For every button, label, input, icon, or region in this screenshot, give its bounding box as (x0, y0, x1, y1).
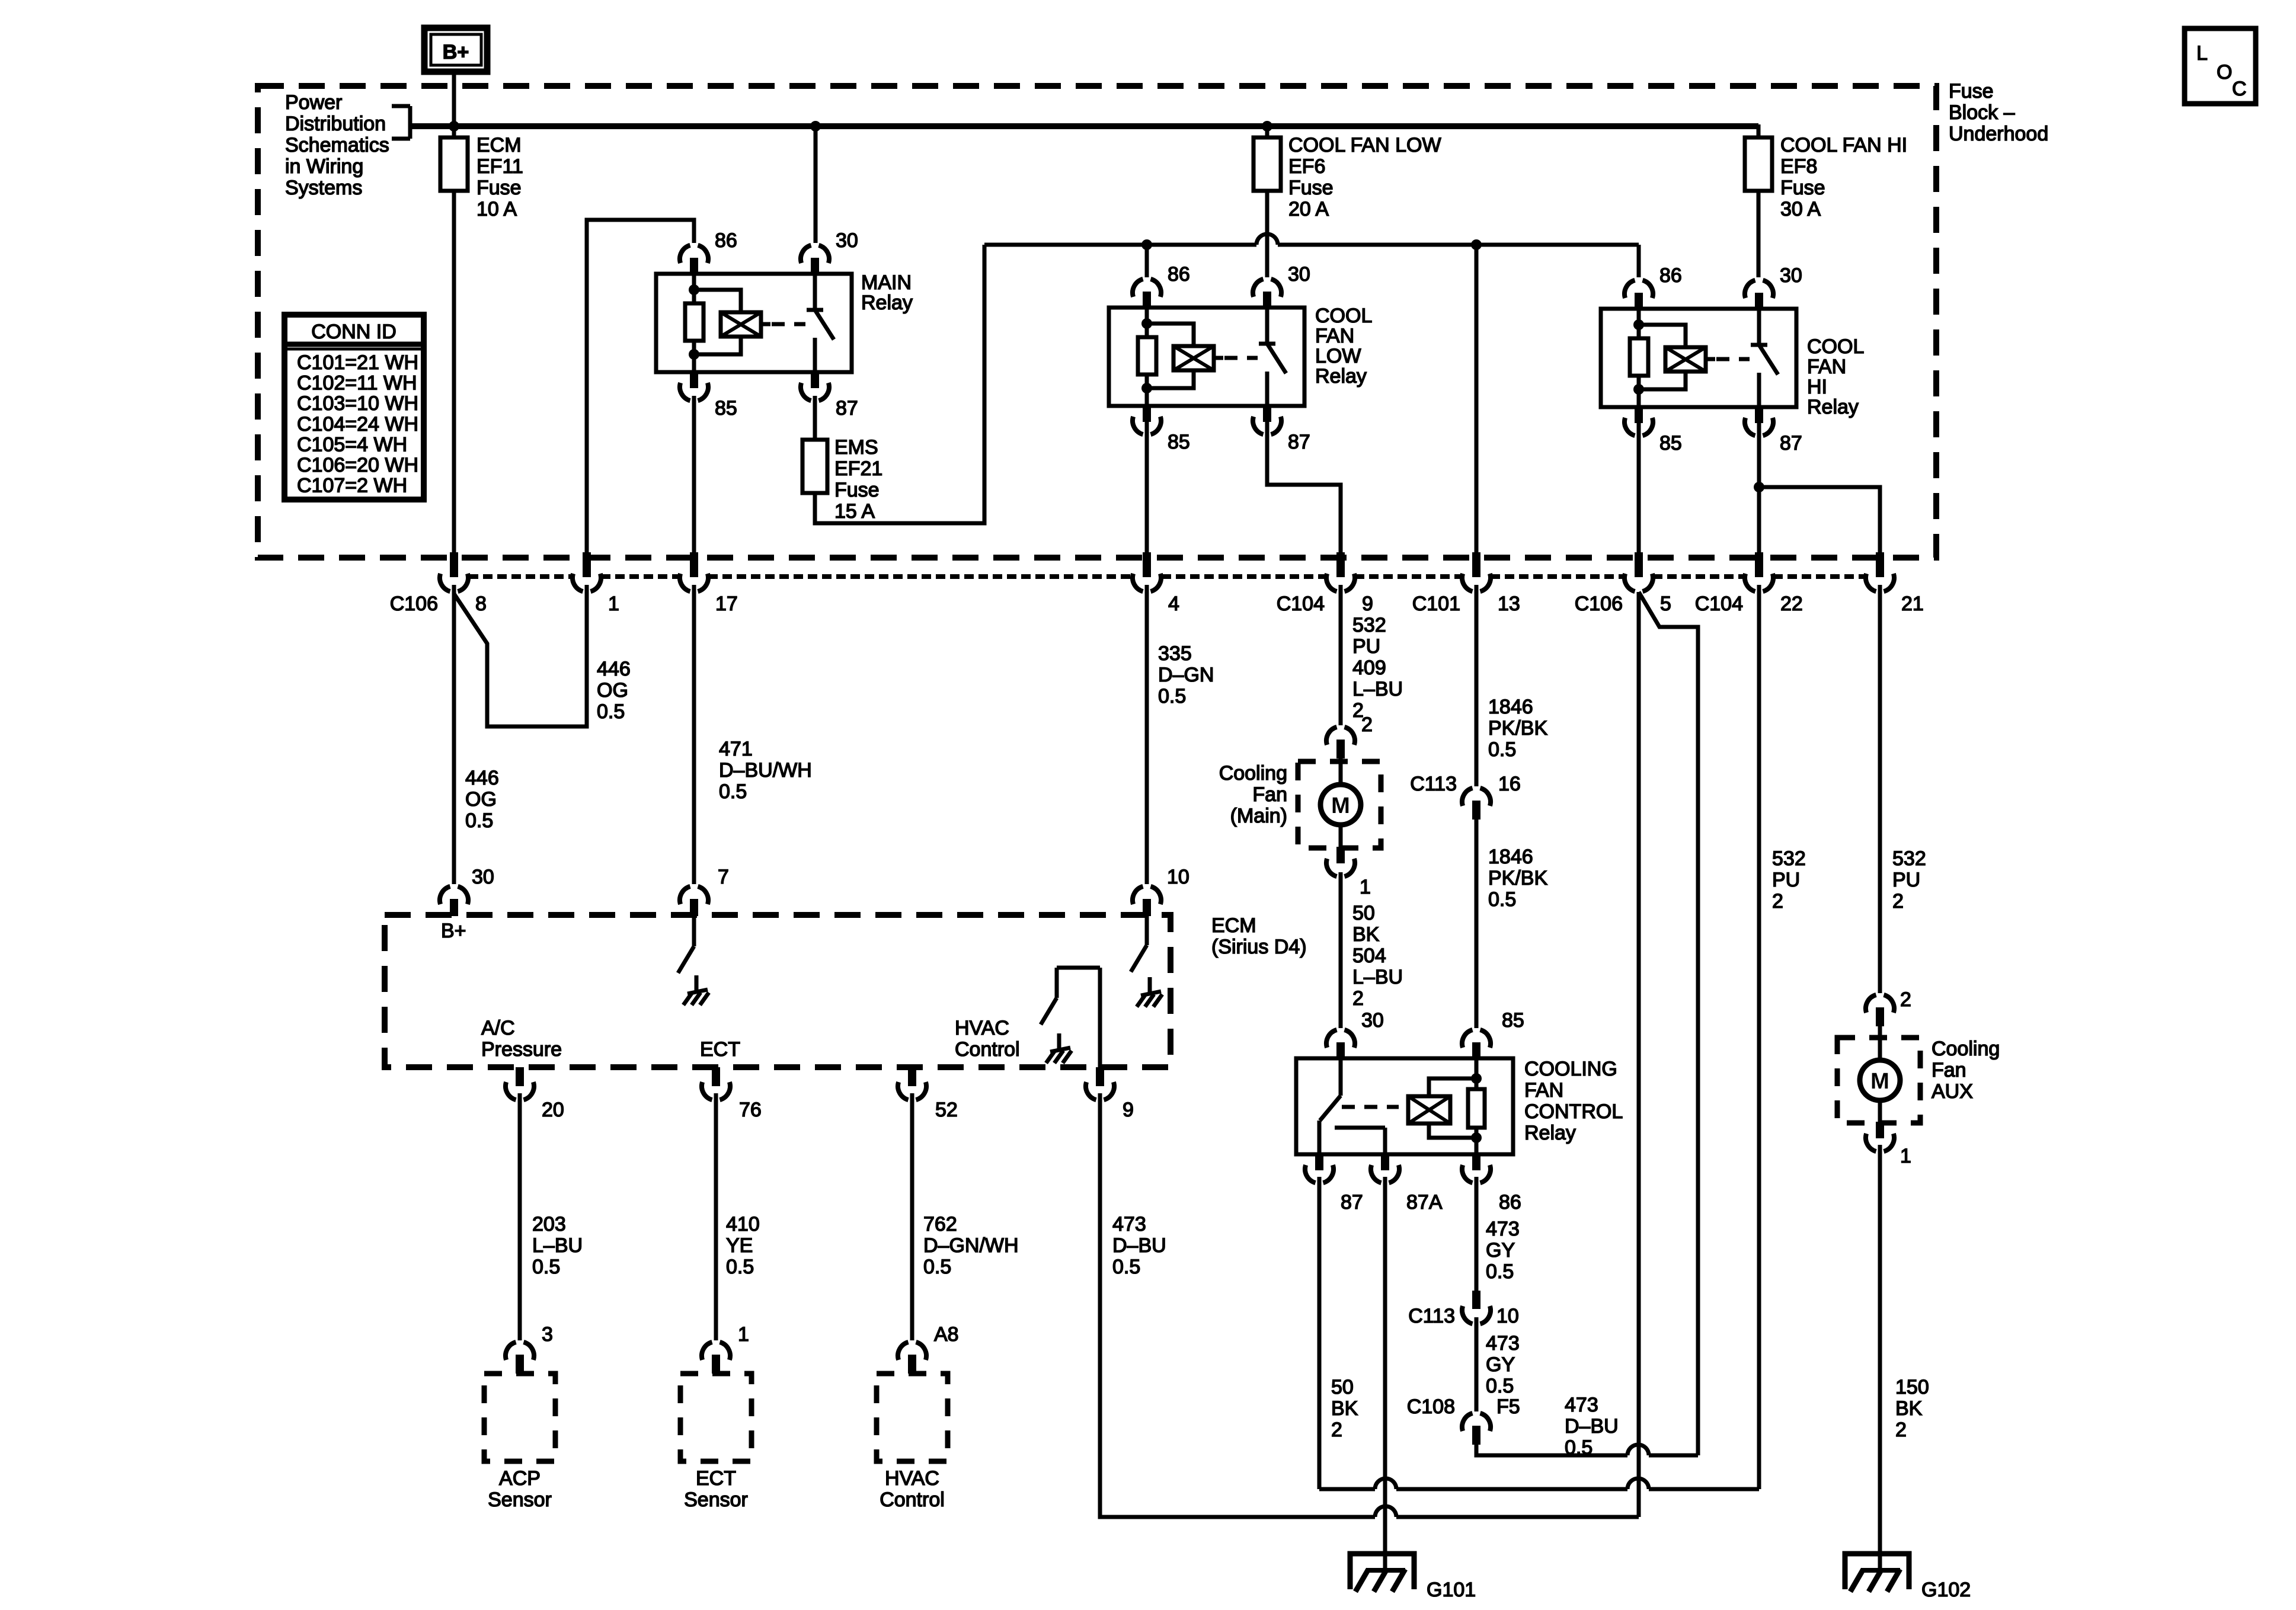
wire 410 YE to ECT sensor (714, 1093, 718, 1340)
svg-text:85: 85 (1168, 431, 1190, 453)
svg-text:C104: C104 (1695, 593, 1743, 615)
junction dot MAIN relay feed (810, 121, 821, 132)
control relay actuator dashed link (1342, 1105, 1399, 1109)
svg-text:4: 4 (1168, 593, 1179, 615)
svg-text:C101: C101 (1412, 593, 1460, 615)
fuse COOL FAN LOW EF6 20A (1265, 126, 1269, 137)
HVAC Control top connector pin A8 (898, 1342, 926, 1360)
svg-text:87: 87 (836, 397, 858, 420)
svg-text:EMS: EMS (834, 436, 878, 459)
svg-text:30: 30 (836, 229, 858, 252)
svg-text:M: M (1331, 793, 1350, 818)
svg-text:C101=21 WH: C101=21 WH (297, 351, 418, 374)
svg-text:Fuse: Fuse (1949, 80, 1994, 103)
svg-text:8: 8 (475, 593, 487, 615)
wire 50 BK relay 87 down (1318, 1177, 1322, 1489)
svg-text:COOL FAN HI: COOL FAN HI (1780, 134, 1907, 156)
svg-text:16: 16 (1498, 773, 1521, 795)
svg-text:CONN ID: CONN ID (311, 321, 396, 343)
fuse ECM EF11 10A (440, 137, 468, 191)
relay switch (813, 274, 817, 310)
svg-text:0.5: 0.5 (1486, 1375, 1514, 1397)
motor bottom connector (1336, 847, 1345, 863)
control relay switch (1339, 1058, 1343, 1096)
svg-text:C113: C113 (1408, 1305, 1455, 1327)
svg-text:O: O (2217, 61, 2232, 84)
svg-text:1846: 1846 (1488, 846, 1533, 868)
control relay coil (1408, 1096, 1450, 1124)
ground G101 (1350, 1554, 1414, 1589)
relay pin 87 connector (811, 371, 819, 388)
svg-text:13: 13 (1498, 593, 1520, 615)
svg-text:30 A: 30 A (1780, 198, 1821, 220)
relay actuator dashed link (1224, 356, 1258, 360)
svg-text:85: 85 (1502, 1009, 1524, 1032)
svg-text:(Main): (Main) (1230, 805, 1287, 827)
svg-text:446: 446 (597, 658, 631, 680)
svg-text:17: 17 (715, 593, 738, 615)
control relay junction dots (1471, 1073, 1482, 1084)
control relay bottom pin 87A (1381, 1153, 1389, 1170)
svg-text:AUX: AUX (1932, 1080, 1973, 1103)
ECT Sensor top connector pin 1 (702, 1342, 730, 1360)
svg-text:Fuse: Fuse (477, 177, 522, 199)
svg-text:86: 86 (1499, 1191, 1521, 1214)
ECT Sensor dashed box (680, 1374, 752, 1461)
junction dot CFL 86 (1141, 239, 1152, 250)
svg-text:OG: OG (597, 679, 628, 702)
svg-text:7: 7 (718, 866, 729, 888)
svg-text:22: 22 (1780, 593, 1803, 615)
svg-text:FAN: FAN (1524, 1079, 1563, 1102)
relay box MAIN (656, 274, 852, 372)
svg-text:YE: YE (726, 1234, 753, 1257)
svg-text:86: 86 (1659, 264, 1682, 287)
relay actuator dashed link (1716, 357, 1750, 361)
svg-text:C107=2 WH: C107=2 WH (297, 475, 407, 497)
svg-text:15 A: 15 A (834, 500, 875, 523)
svg-text:409: 409 (1352, 657, 1386, 679)
svg-text:10: 10 (1496, 1305, 1519, 1327)
svg-text:86: 86 (715, 229, 737, 252)
svg-text:GY: GY (1486, 1353, 1515, 1376)
svg-text:Systems: Systems (285, 177, 362, 199)
fuse COOL FAN HI EF8 30A (1745, 137, 1772, 191)
svg-text:PU: PU (1352, 635, 1380, 658)
relay pin 85 connector (690, 371, 698, 388)
relay box COOL (1601, 309, 1796, 407)
motor circle M (1860, 1060, 1900, 1100)
svg-text:D–BU/WH: D–BU/WH (719, 759, 812, 782)
svg-text:C104: C104 (1277, 593, 1325, 615)
svg-text:0.5: 0.5 (1565, 1436, 1593, 1459)
svg-text:Relay: Relay (1315, 365, 1367, 388)
wire 50 BK bottom bus to 532 PU wire (1319, 1487, 1375, 1491)
svg-text:G102: G102 (1921, 1579, 1971, 1601)
svg-text:21: 21 (1901, 593, 1924, 615)
motor top connector Cooling Fan AUX (1866, 995, 1894, 1013)
svg-text:0.5: 0.5 (1488, 738, 1516, 761)
hop on 473 D-BU over C106 5 wire (1627, 1445, 1649, 1455)
ECM pin 9 internal circuit (1057, 966, 1100, 970)
svg-text:L–BU: L–BU (1352, 678, 1403, 700)
wire 532 PU connector 22 down (1757, 585, 1761, 1489)
motor dashed box (1837, 1038, 1920, 1123)
relay box COOL (1109, 308, 1304, 406)
svg-text:OG: OG (465, 788, 497, 811)
ECM pin 20 connector A/C Pressure (516, 1067, 524, 1086)
relay pin 85 connector (1143, 405, 1151, 422)
wire B+ terminal down to EF11 fuse (452, 73, 456, 137)
connector C104 pin 9 (1336, 552, 1345, 577)
hop over EF6 wire (1256, 234, 1278, 245)
wire 50 BK 504 L-BU motor to relay 30 (1339, 872, 1343, 1028)
relay coil (694, 290, 741, 312)
wire CFL 85 to connector 4 (1145, 422, 1149, 554)
svg-text:C108: C108 (1407, 1395, 1455, 1418)
svg-text:L–BU: L–BU (1352, 966, 1403, 988)
connector C101 pin 13 (1472, 552, 1480, 577)
svg-text:A/C: A/C (481, 1017, 515, 1039)
svg-text:471: 471 (719, 738, 753, 760)
svg-text:COOL: COOL (1315, 305, 1372, 327)
motor bottom connector (1876, 1122, 1884, 1138)
svg-text:203: 203 (532, 1213, 566, 1235)
relay coil (1147, 324, 1194, 346)
svg-text:87: 87 (1780, 432, 1802, 454)
B+ power terminal box (424, 28, 487, 72)
svg-text:5: 5 (1660, 593, 1671, 615)
svg-text:B+: B+ (443, 41, 469, 63)
wire 335 D-GN connector 4 to ECM 10 (1145, 585, 1149, 884)
svg-text:504: 504 (1352, 945, 1386, 967)
svg-text:D–GN: D–GN (1158, 664, 1214, 686)
svg-text:0.5: 0.5 (923, 1256, 951, 1278)
motor top connector Cooling Fan Main (1326, 727, 1355, 745)
svg-text:1846: 1846 (1488, 696, 1533, 718)
svg-text:A8: A8 (934, 1323, 959, 1346)
wire EMS fuse to relay feed bus (815, 245, 984, 523)
wire MAIN 87 to EMS fuse (813, 396, 817, 440)
svg-text:C: C (2232, 78, 2247, 100)
relay pin 87 connector (1263, 405, 1271, 422)
svg-text:C103=10 WH: C103=10 WH (297, 392, 418, 415)
svg-text:BK: BK (1895, 1397, 1923, 1420)
svg-text:Pressure: Pressure (481, 1038, 562, 1061)
svg-text:446: 446 (465, 767, 499, 789)
hop on 473 D-BU over G101 wire (1375, 1506, 1396, 1517)
wire 473 GY C113 to C108 (1475, 1317, 1479, 1411)
connector C106 row pin 17 (690, 552, 698, 577)
svg-text:D–BU: D–BU (1112, 1234, 1166, 1257)
svg-text:Fuse: Fuse (1780, 177, 1825, 199)
svg-text:Schematics: Schematics (285, 134, 389, 156)
wire CFH 85 to connector 5 (1637, 422, 1641, 554)
svg-text:473: 473 (1112, 1213, 1146, 1235)
svg-text:473: 473 (1565, 1394, 1598, 1416)
hop over G101 wire (1375, 1478, 1396, 1489)
relay box COOLING FAN CONTROL (1296, 1058, 1513, 1154)
svg-text:ECT: ECT (696, 1467, 736, 1490)
wire 471 D-BU/WH connector 17 to ECM 7 (692, 585, 696, 884)
svg-text:30: 30 (472, 866, 494, 888)
svg-text:532: 532 (1892, 847, 1926, 870)
connector C106 row pin 1 (583, 552, 591, 577)
relay actuator dashed link (772, 322, 805, 327)
control relay bottom pin 87 (1315, 1153, 1323, 1170)
ECM pin 10 internal switch to ground (1145, 915, 1149, 945)
svg-text:PK/BK: PK/BK (1488, 867, 1547, 889)
relay junction dots (1633, 319, 1644, 330)
svg-text:B+: B+ (441, 920, 466, 942)
svg-text:M: M (1870, 1069, 1889, 1094)
svg-text:0.5: 0.5 (465, 809, 493, 832)
relay switch (1757, 309, 1761, 345)
svg-text:C105=4 WH: C105=4 WH (297, 433, 407, 456)
svg-text:9: 9 (1362, 593, 1373, 615)
svg-text:30: 30 (1780, 264, 1802, 287)
svg-text:COOL: COOL (1807, 335, 1864, 358)
motor circle M (1320, 785, 1361, 825)
wire 446 OG pin 8 to ECM B+ (452, 585, 456, 884)
ECM pin 10 connector (1133, 886, 1161, 904)
wire MAIN 85 to connector 17 (692, 396, 696, 554)
svg-text:Underhood: Underhood (1949, 123, 2048, 145)
svg-text:Cooling: Cooling (1932, 1038, 2000, 1060)
svg-text:87: 87 (1288, 431, 1310, 453)
HVAC Control dashed box (877, 1374, 948, 1461)
svg-text:ECM: ECM (1211, 914, 1256, 937)
svg-text:D–BU: D–BU (1565, 1415, 1619, 1438)
wire 203 L-BU to ACP sensor (518, 1093, 522, 1340)
ACP Sensor dashed box (484, 1374, 555, 1461)
relay pin 85 connector (1635, 406, 1643, 423)
svg-text:EF6: EF6 (1288, 155, 1325, 178)
svg-text:85: 85 (1659, 432, 1682, 454)
svg-text:10 A: 10 A (477, 198, 517, 220)
svg-text:9: 9 (1123, 1099, 1134, 1121)
ECM pin 7 internal switch to ground (692, 916, 696, 946)
svg-text:30: 30 (1288, 263, 1310, 286)
wire C101 13 drop to border (1475, 245, 1479, 554)
svg-text:410: 410 (726, 1213, 760, 1235)
ACP Sensor top connector pin 3 (506, 1342, 534, 1360)
wire C106 5 straight down (1637, 592, 1641, 1517)
svg-text:86: 86 (1168, 263, 1190, 286)
dotted inline connector line (469, 574, 573, 579)
junction dot CFH 87 branch (1754, 482, 1764, 492)
connector C104 pin 22 (1755, 552, 1763, 577)
svg-text:Fan: Fan (1252, 783, 1287, 806)
top bus wire from bracket to EF8 fuse (410, 123, 1758, 129)
wire CFL 87 jog to connector 9 (1267, 422, 1341, 554)
junction dot EF6 feed (1262, 121, 1272, 132)
inline connector C113 pin 16 (1462, 788, 1491, 806)
svg-text:150: 150 (1895, 1376, 1929, 1398)
svg-text:85: 85 (715, 397, 737, 420)
relay switch (1265, 308, 1269, 344)
wire branch to connector 21 (1759, 487, 1880, 554)
control relay pin 85 connector (1462, 1030, 1491, 1048)
svg-text:Relay: Relay (861, 292, 913, 314)
relay pin 87 connector (1755, 406, 1763, 423)
relay coil resistor (1637, 309, 1641, 338)
relay junction dots (1141, 318, 1152, 329)
svg-text:87: 87 (1341, 1191, 1363, 1214)
relay pin 30 connector (1253, 279, 1281, 297)
svg-text:2: 2 (1900, 988, 1911, 1011)
control relay bottom pin 86 (1472, 1153, 1480, 1170)
svg-text:Power: Power (285, 91, 342, 114)
svg-text:30: 30 (1361, 1009, 1384, 1032)
svg-text:FAN: FAN (1315, 325, 1354, 347)
svg-text:C113: C113 (1410, 773, 1457, 795)
svg-text:PU: PU (1772, 869, 1800, 891)
junction dot B+ drop (449, 121, 459, 132)
svg-text:HVAC: HVAC (955, 1017, 1009, 1039)
wire 446 OG jumper pin 1 to pin 8 (454, 585, 587, 726)
svg-text:HI: HI (1807, 376, 1827, 398)
wire MAIN relay pin 30 drop (814, 126, 818, 243)
ground G102 (1845, 1554, 1909, 1589)
svg-text:ECT: ECT (700, 1038, 740, 1061)
svg-text:EF21: EF21 (834, 457, 882, 480)
ECM Sirius D4 dashed box (385, 915, 1171, 1067)
svg-text:10: 10 (1167, 866, 1189, 888)
svg-text:762: 762 (923, 1213, 957, 1235)
svg-text:MAIN: MAIN (861, 271, 912, 294)
svg-text:0.5: 0.5 (1486, 1260, 1514, 1283)
control relay pin 30 connector (1326, 1030, 1355, 1048)
svg-text:0.5: 0.5 (532, 1256, 560, 1278)
ECM pin 76 connector ECT (712, 1067, 720, 1086)
svg-text:HVAC: HVAC (885, 1467, 939, 1490)
connector C106 pin 5 (1635, 552, 1643, 577)
svg-text:Fuse: Fuse (834, 479, 880, 501)
svg-text:1: 1 (1360, 876, 1371, 898)
svg-text:F5: F5 (1496, 1395, 1520, 1418)
wire 473 GY relay 86 to C113 10 (1475, 1177, 1479, 1292)
wire 473 D-BU C108 to C106 5 branch (1476, 1445, 1627, 1455)
svg-text:2: 2 (1352, 987, 1364, 1010)
svg-text:20 A: 20 A (1288, 198, 1329, 220)
connector C106 row pin 21 (1876, 552, 1884, 577)
relay feed bus wire (984, 243, 1256, 247)
svg-text:Control: Control (955, 1038, 1020, 1061)
svg-text:C106: C106 (390, 593, 438, 615)
svg-text:BK: BK (1352, 923, 1380, 946)
svg-text:G101: G101 (1427, 1579, 1476, 1601)
wire EF11 fuse to C106 pin 8 (452, 191, 456, 554)
wire MAIN relay pin 86 loop (587, 220, 694, 554)
svg-text:2: 2 (1895, 1419, 1907, 1441)
CONN ID table box (284, 315, 424, 500)
svg-text:Cooling: Cooling (1219, 762, 1287, 785)
svg-text:C104=24 WH: C104=24 WH (297, 413, 418, 436)
motor leads (1878, 1025, 1882, 1062)
svg-text:2: 2 (1772, 890, 1783, 913)
svg-text:52: 52 (935, 1099, 958, 1121)
control relay resistor (1475, 1058, 1479, 1089)
relay pin 30 connector (1745, 280, 1773, 298)
wire CFL relay 86 drop (1145, 245, 1149, 277)
ECM pin 7 connector (680, 886, 708, 904)
svg-text:76: 76 (739, 1099, 762, 1121)
svg-text:C102=11 WH: C102=11 WH (297, 372, 417, 395)
svg-text:C106=20 WH: C106=20 WH (297, 454, 418, 476)
svg-text:0.5: 0.5 (1488, 888, 1516, 911)
relay pin 30 connector (801, 245, 829, 263)
relay coil resistor (692, 274, 696, 303)
wire C106 5 branch diagonal (1639, 592, 1698, 1455)
fuse block underhood dashed border (258, 86, 1936, 558)
svg-text:D–GN/WH: D–GN/WH (923, 1234, 1019, 1257)
svg-text:ECM: ECM (477, 134, 522, 156)
relay coil resistor (1145, 308, 1149, 337)
svg-text:2: 2 (1892, 890, 1904, 913)
ECM pin 52 connector HVAC Control (908, 1067, 916, 1086)
svg-text:Sensor: Sensor (684, 1489, 748, 1511)
svg-text:532: 532 (1352, 614, 1386, 636)
svg-text:Distribution: Distribution (285, 113, 386, 135)
svg-text:Block –: Block – (1949, 101, 2015, 124)
svg-text:in Wiring: in Wiring (285, 155, 363, 178)
svg-text:CONTROL: CONTROL (1524, 1100, 1623, 1123)
svg-text:1: 1 (1900, 1145, 1911, 1167)
motor dashed box (1298, 761, 1381, 848)
connector C106 row pin 4 (1143, 552, 1151, 577)
svg-text:87A: 87A (1406, 1191, 1443, 1214)
svg-text:C106: C106 (1575, 593, 1623, 615)
svg-text:0.5: 0.5 (719, 780, 747, 803)
svg-text:GY: GY (1486, 1239, 1515, 1262)
svg-text:Fan: Fan (1932, 1059, 1966, 1081)
motor leads (1339, 757, 1343, 786)
svg-text:473: 473 (1486, 1218, 1520, 1240)
wire 532 PU connector 21 to cooling fan aux (1878, 585, 1882, 993)
ECM pin 30 connector B+ (440, 886, 468, 904)
relay pin 86 connector (1133, 279, 1161, 297)
wire EF6 fuse down to COOL FAN LOW relay pin 30 (1265, 191, 1269, 277)
ECM pin 9 connector (1096, 1067, 1104, 1086)
svg-text:0.5: 0.5 (1158, 685, 1186, 708)
svg-text:50: 50 (1352, 902, 1375, 924)
svg-text:EF8: EF8 (1780, 155, 1817, 178)
svg-text:3: 3 (542, 1323, 553, 1346)
wire 532 PU 409 L-BU connector 9 to cooling fan main (1339, 585, 1343, 725)
svg-text:L–BU: L–BU (532, 1234, 583, 1257)
svg-text:0.5: 0.5 (726, 1256, 754, 1278)
hop over C106 5 wire (1627, 1478, 1649, 1489)
connector C106 pin 8 (450, 552, 458, 577)
junction dot C101 13 drop (1471, 239, 1482, 250)
svg-text:0.5: 0.5 (597, 700, 625, 723)
relay pin 86 connector (680, 245, 708, 263)
svg-text:EF11: EF11 (477, 155, 523, 178)
inline connector C113 pin 10 (1472, 1291, 1480, 1309)
svg-text:Control: Control (880, 1489, 945, 1511)
svg-text:LOW: LOW (1315, 345, 1361, 367)
power distribution bracket (408, 106, 412, 139)
svg-text:Relay: Relay (1807, 396, 1859, 418)
svg-text:532: 532 (1772, 847, 1806, 870)
svg-text:473: 473 (1486, 1332, 1520, 1355)
wire 150 BK aux motor to G102 (1878, 1145, 1882, 1571)
wire 762 D-GN/WH to HVAC control (910, 1093, 914, 1340)
svg-text:(Sirius D4): (Sirius D4) (1211, 936, 1307, 958)
control relay 87A contact (1335, 1126, 1385, 1130)
svg-text:335: 335 (1158, 642, 1192, 665)
